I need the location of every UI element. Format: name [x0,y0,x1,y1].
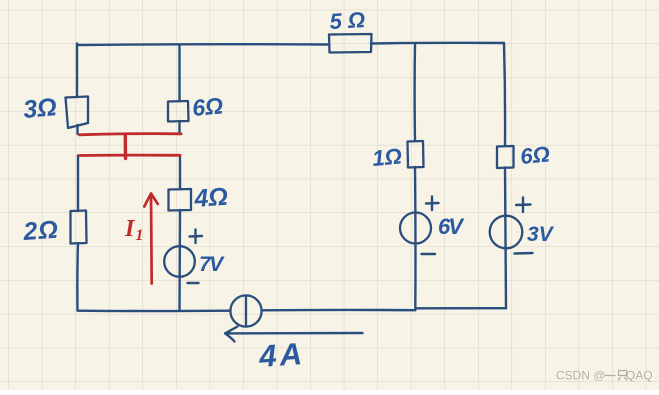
minus sign 6V [422,253,436,255]
wire 2-ohm bottom to bottom rail [76,243,79,311]
wire top horizontal right segment [371,42,504,45]
wire red rail to 4-ohm [179,156,181,190]
wire vertical to 6-ohm left [178,45,180,101]
arrow 4A shaft [226,332,363,335]
svg-text:1Ω: 1Ω [371,144,402,171]
svg-text:6Ω: 6Ω [191,92,224,121]
labels (handwritten style) [21,7,554,374]
svg-text:QAQ: QAQ [626,369,653,383]
resistor 1 ohm [408,141,424,168]
wire stub 3-ohm bottom to red rail [76,125,78,134]
arrow I1 head [144,194,158,207]
svg-text:2Ω: 2Ω [21,216,59,246]
arrow I1 shaft [150,194,153,284]
resistor 3 ohm [66,97,89,129]
red short vertical link [124,135,128,159]
resistor 5 ohm (top) [329,34,372,53]
wire 4-ohm to 7V and down to bottom rail [178,210,181,311]
svg-text:7V: 7V [199,253,225,276]
svg-text:5Ω: 5Ω [329,7,372,34]
svg-text:3V: 3V [527,223,555,246]
svg-text:CSDN @: CSDN @ [556,369,606,383]
voltage source 6V circle [400,213,431,244]
svg-text:3Ω: 3Ω [22,93,58,124]
wire right branch vertical [504,43,506,308]
wire top horizontal left segment [77,43,329,46]
red short-circuit rail bottom [80,154,181,157]
plus sign 6V [426,197,439,211]
minus sign 7V [188,282,199,284]
wire 1-ohm branch vertical [413,44,416,311]
current source internal bar [245,296,247,326]
watermark CSDN [556,369,654,384]
arrow 4A head [225,327,238,342]
plus sign 7V [190,230,203,244]
svg-text:4A: 4A [257,336,306,374]
wire bottom rail current source to 1-ohm branch [262,309,416,312]
resistor 6 ohm (left) [168,101,189,122]
red short-circuit rail top [80,134,182,135]
wire left vertical red rail to 2-ohm [77,156,79,212]
svg-text:6Ω: 6Ω [519,142,550,169]
svg-text:4Ω: 4Ω [192,183,228,213]
resistor 4 ohm [169,189,192,211]
wire bottom rail left of current source [78,310,231,313]
wire stub 6-ohm bottom to red rail [178,121,180,133]
resistor 2 ohm [71,211,87,244]
minus sign 3V [515,252,533,255]
voltage source 3V circle [490,216,523,249]
current source circle [230,295,261,326]
resistor 6 ohm (right) [497,146,514,168]
voltage source 7V circle [164,246,195,277]
wire top-left vertical [76,44,78,98]
wire bottom rail right segment [416,307,506,309]
plus sign 3V [516,198,531,213]
